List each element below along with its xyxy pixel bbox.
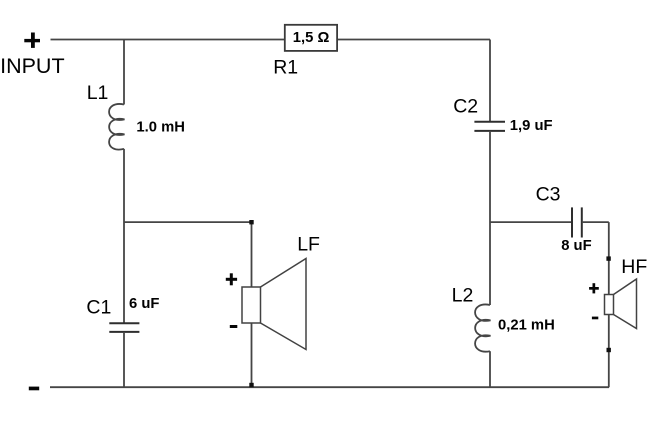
svg-text:HF: HF: [621, 256, 647, 278]
svg-text:0,21 mH: 0,21 mH: [498, 318, 555, 334]
svg-text:C3: C3: [536, 183, 561, 205]
svg-text:6 uF: 6 uF: [129, 296, 159, 312]
svg-text:L1: L1: [87, 82, 109, 104]
svg-text:C2: C2: [453, 96, 478, 118]
svg-text:C1: C1: [86, 296, 111, 318]
svg-text:1,5 Ω: 1,5 Ω: [293, 30, 330, 46]
svg-text:INPUT: INPUT: [0, 54, 65, 78]
svg-text:R1: R1: [273, 57, 298, 79]
svg-text:LF: LF: [297, 233, 320, 255]
svg-text:8 uF: 8 uF: [561, 238, 591, 254]
svg-text:1.0 mH: 1.0 mH: [136, 120, 185, 136]
svg-text:L2: L2: [452, 285, 474, 307]
svg-text:1,9 uF: 1,9 uF: [510, 118, 553, 134]
